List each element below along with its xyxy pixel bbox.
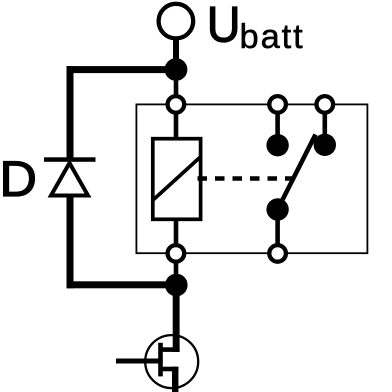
contact dot common <box>266 198 288 220</box>
pin 5 (common bottom) <box>269 245 286 262</box>
dashed actuation link <box>198 176 293 181</box>
transistor gate lead <box>116 359 163 364</box>
contact dot NO <box>314 134 336 156</box>
switch blade <box>278 135 316 210</box>
wire left branch upper (to diode cathode) <box>67 66 74 159</box>
pin 2 (NC top) <box>269 96 286 113</box>
transistor source plate <box>162 367 179 372</box>
transistor gate bar <box>158 343 163 377</box>
node A junction <box>165 58 188 81</box>
wire node A to pin1 <box>174 75 179 100</box>
svg-text:batt: batt <box>240 18 305 56</box>
svg-text:U: U <box>207 0 241 53</box>
diode D triangle <box>51 163 88 196</box>
wire pin1 to coil top <box>174 112 179 140</box>
wire left branch lower (diode anode to bottom run) <box>67 196 74 289</box>
wire coil bottom to pin4 <box>174 217 179 245</box>
relay box <box>136 104 367 253</box>
transistor Q1 body <box>145 335 198 388</box>
node B junction <box>165 274 188 297</box>
contact dot NC <box>266 134 288 156</box>
wire Ubatt terminal to node A <box>173 38 179 70</box>
svg-text:D: D <box>0 151 37 207</box>
terminal Ubatt <box>159 4 194 39</box>
wire common contact to pin5 <box>275 209 280 247</box>
wire node B to drain <box>173 285 180 352</box>
transistor source lead <box>172 367 178 392</box>
wire pin2 to NC contact <box>275 112 280 145</box>
wire node A to left branch <box>67 66 177 73</box>
transistor drain plate <box>162 347 180 352</box>
wire pin3 to NO contact <box>323 112 328 145</box>
label Ubatt <box>207 0 305 56</box>
pin 1 (coil top) <box>168 96 185 113</box>
relay coil K <box>153 139 201 220</box>
pin 4 (coil bottom) <box>168 245 185 262</box>
wire pin4 to node B <box>174 260 179 285</box>
wire bottom run to node B <box>67 281 177 288</box>
pin 3 (NO top) <box>317 96 334 113</box>
diode D cathode bar <box>44 157 96 162</box>
